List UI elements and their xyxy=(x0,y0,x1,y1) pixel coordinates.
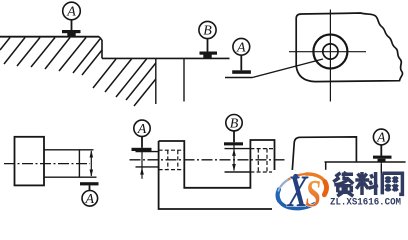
lower surface line (fig1/fig2) xyxy=(102,57,230,59)
svg-text:ZL.XS1616.COM: ZL.XS1616.COM xyxy=(330,196,401,208)
step surface line xyxy=(325,161,406,163)
top-right plate outline xyxy=(296,13,402,82)
svg-text:B: B xyxy=(203,24,212,39)
watermark chinese char 网 (hand drawn) xyxy=(382,173,402,194)
double arrow under B2 xyxy=(232,145,236,171)
hole inner circle xyxy=(323,44,338,59)
svg-text:S: S xyxy=(305,173,321,212)
shaft centerline xyxy=(4,163,90,165)
dial indicator B1 (top-middle) xyxy=(199,21,217,58)
svg-text:A: A xyxy=(85,192,95,207)
watermark chinese char 料 (hand drawn) xyxy=(355,172,378,195)
watermark letter X with dot xyxy=(287,168,309,217)
svg-text:B: B xyxy=(230,116,239,131)
stand line below step (over backing) xyxy=(380,164,382,174)
shaft top line + extension xyxy=(44,149,94,151)
watermark chinese char 资 (hand drawn) xyxy=(333,172,353,196)
dial indicator A5 (bottom-right) xyxy=(373,129,392,162)
U-housing outline (bottom middle) xyxy=(159,140,275,209)
step vertical xyxy=(101,40,103,58)
housing centerline xyxy=(130,159,288,161)
svg-text:A: A xyxy=(376,130,386,145)
vertical V1 xyxy=(155,58,157,104)
left shaft solid lines xyxy=(136,151,159,153)
shaft bottom line + extension xyxy=(44,176,97,178)
right shaft solid lines in notch xyxy=(225,148,251,150)
dial indicator A3 (below shaft) xyxy=(80,182,99,207)
dial indicator B2 (top of housing) xyxy=(224,115,243,146)
bottom-left: big cylinder rect xyxy=(15,137,45,186)
watermark white backing xyxy=(269,164,408,219)
step jog vertical xyxy=(325,162,327,170)
bottom-right block outline xyxy=(292,137,356,171)
vertical centerline of hole xyxy=(329,10,331,102)
dimension double arrow xyxy=(90,150,94,177)
svg-text:A: A xyxy=(137,122,147,137)
svg-text:A: A xyxy=(66,5,76,20)
up arrow below left shaft xyxy=(140,151,144,179)
surface top line (fig1) xyxy=(0,36,99,38)
shaft end vertical xyxy=(78,150,80,177)
hatching under lower surface xyxy=(82,50,156,106)
dial indicator A1 (top-left) xyxy=(62,2,81,37)
step chamfer xyxy=(99,37,102,40)
vertical V2 xyxy=(183,58,185,101)
stand line below step xyxy=(380,162,382,174)
hatching under top surface xyxy=(0,38,100,74)
base line under A2 xyxy=(225,77,253,79)
leader slant line to hole xyxy=(253,59,324,78)
watermark ellipse ring xyxy=(273,169,330,214)
dial indicator A2 (top middle-right) xyxy=(232,38,251,73)
left bore hidden lines xyxy=(159,150,185,169)
right bore hidden lines xyxy=(250,149,274,172)
horizontal centerline of hole xyxy=(289,51,366,53)
hole outer circle xyxy=(313,35,347,69)
dial indicator A4 (left of housing) xyxy=(132,120,152,151)
svg-text:A: A xyxy=(236,40,246,55)
